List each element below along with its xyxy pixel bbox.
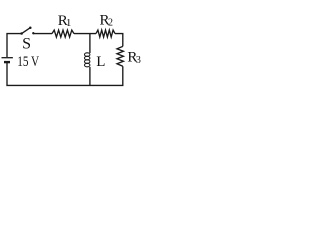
svg-text:S: S [22, 36, 31, 53]
svg-text:2: 2 [108, 18, 113, 29]
svg-text:15 V: 15 V [17, 54, 39, 70]
svg-text:L: L [96, 54, 105, 70]
svg-text:3: 3 [136, 55, 141, 66]
svg-text:1: 1 [66, 17, 72, 29]
